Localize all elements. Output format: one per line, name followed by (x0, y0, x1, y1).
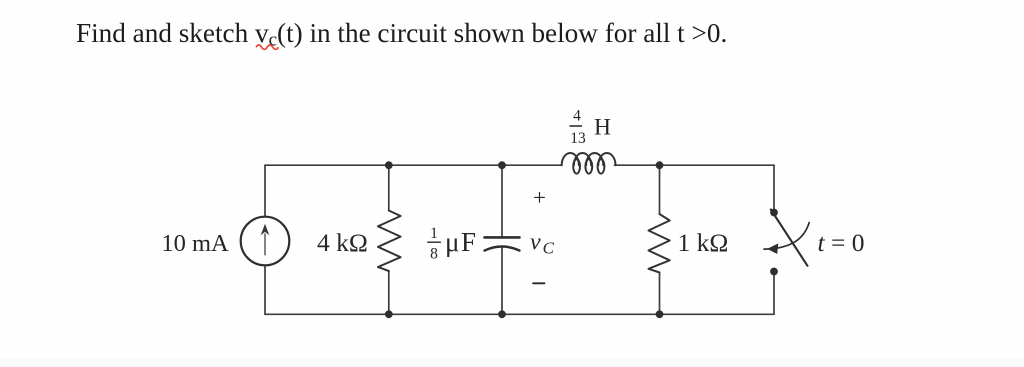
wire: capacitor bottom lead (501, 248, 503, 314)
switch SW1 bottom terminal (770, 268, 778, 276)
wire: left vertical, current source down to bottom-left corner (264, 266, 266, 315)
svg-text:vC: vC (530, 230, 555, 258)
svg-text:10 mA: 10 mA (161, 230, 229, 257)
current source I1 arrow (261, 224, 270, 255)
switch SW1 arrowhead (767, 243, 778, 254)
svg-text:1: 1 (430, 225, 438, 242)
svg-text:+: + (533, 185, 546, 210)
switch SW1 closing arrow arc (764, 223, 809, 250)
switch SW1 blade (771, 210, 808, 266)
wire: bottom horizontal (265, 313, 774, 315)
junction node: top of capacitor (498, 161, 506, 169)
resistor R1 4k zigzag (378, 211, 401, 272)
junction node: bottom of 4k resistor (385, 310, 393, 318)
wire: 4k resistor top lead (388, 165, 390, 210)
switch SW1 top terminal (770, 209, 778, 217)
svg-text:4 kΩ: 4 kΩ (317, 228, 368, 257)
capacitor C1 top plate (485, 236, 520, 239)
svg-text:4: 4 (573, 108, 581, 125)
current source I1 circle (241, 217, 290, 266)
wire: right vertical from switch bottom terminal to bottom-right corner (773, 275, 775, 314)
svg-text:13: 13 (570, 130, 586, 147)
resistor R2 1k zigzag (649, 214, 670, 273)
wire: capacitor top lead (501, 165, 503, 236)
capacitor C1 curved bottom plate (485, 247, 520, 251)
label: 4/13 H value (fraction) (570, 108, 586, 148)
wire: 4k resistor bottom lead (388, 271, 390, 314)
svg-text:8: 8 (430, 246, 438, 263)
svg-text:t = 0: t = 0 (818, 228, 865, 257)
wire: top horizontal from top-left corner to inductor (265, 164, 562, 166)
svg-text:1 kΩ: 1 kΩ (678, 228, 729, 257)
wire: 1k resistor top lead (659, 165, 661, 214)
junction node: bottom of 1k resistor (656, 310, 664, 318)
label: 1/8 uF value (fraction) (428, 225, 441, 263)
wire: left vertical, top-left corner down to current source (264, 165, 266, 216)
junction node: top of 4k resistor (385, 161, 393, 169)
title text (76, 18, 727, 51)
junction node: bottom of capacitor (498, 310, 506, 318)
wire: 1k resistor bottom lead (659, 273, 661, 315)
label: minus polarity mark (533, 282, 545, 284)
junction node: top of 1k resistor (656, 161, 664, 169)
wire: right vertical from top-right corner to switch top terminal (773, 165, 775, 209)
inductor L1 coil (562, 153, 616, 174)
wire: top horizontal from inductor to top-right corner (615, 164, 775, 166)
svg-text:H: H (594, 115, 611, 141)
faint bottom band (0, 358, 1024, 367)
svg-text:μF: μF (445, 227, 478, 257)
